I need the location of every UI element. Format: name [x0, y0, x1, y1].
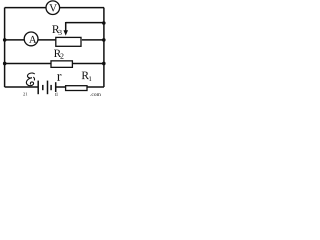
- battery plate short 2: [50, 85, 52, 90]
- wire ammeter to R3: [38, 39, 55, 41]
- wire ammeter row left: [5, 39, 25, 41]
- junction dot left R2 row: [3, 62, 7, 66]
- wire wiper vertical arrow shaft: [65, 22, 67, 31]
- label V in voltmeter: [49, 4, 57, 11]
- label R1: [82, 72, 89, 80]
- wire right wall: [103, 8, 105, 87]
- wire left wall: [4, 8, 6, 87]
- resistor R1 box: [66, 86, 87, 91]
- junction dot left ammeter row: [3, 38, 7, 42]
- wire bottom left: [5, 86, 39, 88]
- label r internal resistance: [57, 74, 61, 81]
- battery cells: [38, 81, 56, 95]
- EMF script E symbol: [26, 73, 34, 86]
- wire R2 row left: [5, 62, 51, 64]
- label A in ammeter: [29, 36, 36, 43]
- battery plate short 1: [42, 85, 44, 90]
- junction dot right wiper row: [102, 21, 106, 25]
- wire battery to R1: [56, 86, 66, 88]
- svg-text:21: 21: [23, 92, 28, 97]
- svg-text:tl: tl: [55, 93, 58, 97]
- resistor R2 box: [51, 61, 72, 68]
- wire top row right: [60, 7, 104, 9]
- wire wiper horizontal: [66, 22, 104, 24]
- label R3: [52, 25, 59, 33]
- battery plate long 1: [37, 81, 39, 95]
- label R2: [54, 50, 61, 57]
- voltmeter U-V circle: [46, 1, 60, 15]
- wire R1 to right wall: [87, 86, 104, 88]
- wire top row left: [5, 7, 47, 9]
- battery plate long 3: [55, 82, 57, 92]
- resistor R3 box: [56, 37, 81, 46]
- ammeter A circle: [24, 32, 38, 46]
- svg-text:.com: .com: [90, 92, 102, 97]
- junction dot right ammeter row: [102, 38, 106, 42]
- wire R3 to right wall: [82, 39, 104, 41]
- rheostat arrow head on R3: [64, 30, 69, 35]
- battery plate long 2: [47, 81, 49, 95]
- wire R2 to right wall: [73, 62, 104, 64]
- junction dot right R2 row: [102, 62, 106, 66]
